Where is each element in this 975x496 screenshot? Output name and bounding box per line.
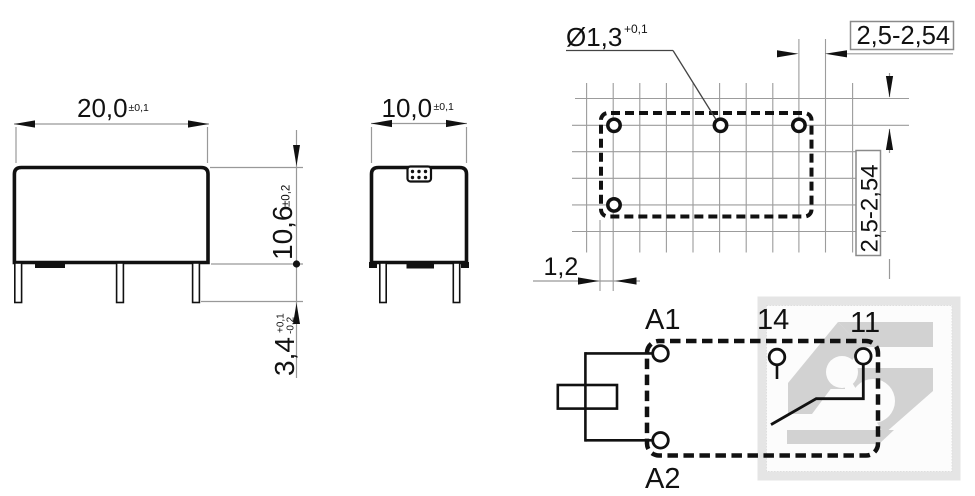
svg-text:±0,1: ±0,1 [434,101,455,113]
svg-text:±0,2: ±0,2 [281,185,293,207]
side view relay body [369,167,469,269]
terminal 11 and switch arm [771,349,871,425]
svg-text:A1: A1 [645,304,680,336]
side view pin left [380,263,386,303]
watermark logo square [758,297,961,481]
svg-text:14: 14 [757,304,789,336]
terminal A1 [653,346,669,362]
hole top-right [793,119,805,131]
svg-text:2,5-2,54: 2,5-2,54 [857,22,951,50]
dimension 2,5-2,54 horizontal [777,22,954,58]
wire A2 horizontal [585,439,652,442]
svg-text:10,6: 10,6 [267,206,298,261]
watermark S glyph [787,322,933,444]
svg-text:-0,2: -0,2 [286,316,297,334]
svg-text:10,0: 10,0 [382,93,433,123]
front view relay body [14,168,208,269]
dimension 20,0 [14,93,209,163]
coil K1 [558,385,617,409]
hole top-center [714,119,726,131]
wire coil vertical [584,352,587,442]
terminal 14 [769,349,785,379]
svg-text:A2: A2 [645,463,680,495]
side view pin right [453,263,459,303]
dimension 10,6 [201,130,303,378]
svg-text:1,2: 1,2 [544,253,579,281]
svg-text:+0,1: +0,1 [624,22,648,36]
svg-text:Ø1,3: Ø1,3 [566,22,622,52]
hole top-left [608,119,620,131]
front view pin 2 [117,263,124,303]
dimension 1,2 [533,253,640,285]
svg-text:20,0: 20,0 [77,93,128,123]
footprint outline dashed [601,113,812,217]
dimension 2,5-2,54 vertical [856,73,893,279]
hole bottom-left [608,199,620,211]
front view pin 1 [15,263,22,303]
schematic outline dashed [647,341,878,456]
svg-text:2,5-2,54: 2,5-2,54 [857,164,884,252]
svg-text:±0,1: ±0,1 [129,102,150,114]
label hole diameter [566,22,716,120]
wire A1 horizontal [585,352,652,355]
dimension 10,0 [371,93,467,163]
front view pin 3 [193,263,200,303]
terminal A2 [653,433,669,449]
pcb grid [572,39,909,291]
svg-text:11: 11 [850,307,880,339]
svg-text:3,4: 3,4 [269,337,300,376]
